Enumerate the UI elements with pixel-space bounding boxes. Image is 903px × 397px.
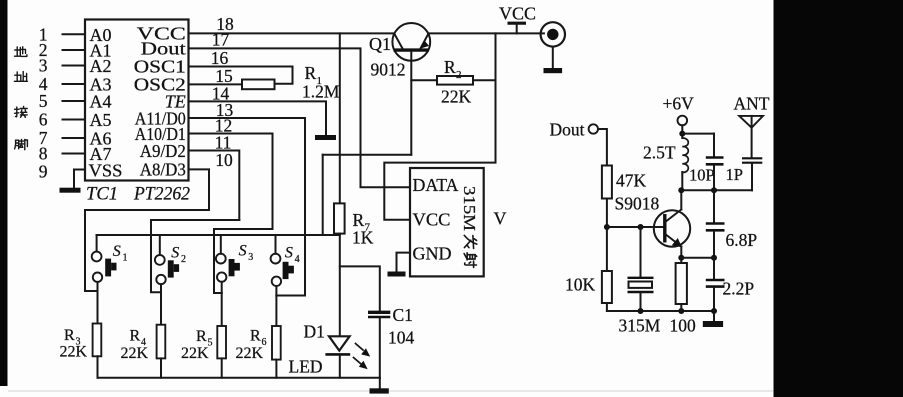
chinese char DI (earth) (15, 47, 27, 57)
chinese char JIAO (pin/foot) (15, 139, 28, 149)
svg-text:100: 100 (670, 316, 697, 336)
svg-text:10P: 10P (689, 166, 715, 185)
svg-text:22K: 22K (236, 345, 264, 362)
svg-text:3: 3 (39, 56, 48, 76)
capacitor C3 1P (742, 158, 762, 190)
svg-text:+6V: +6V (663, 94, 695, 114)
svg-text:2: 2 (181, 254, 186, 265)
svg-text:2: 2 (456, 69, 462, 81)
svg-text:R: R (250, 328, 261, 345)
RF ground bar (703, 321, 723, 327)
capacitor C2 10P (706, 134, 724, 191)
crystal Y1 315M (628, 227, 654, 311)
wire rail to R7 bottom (323, 234, 340, 236)
transistor Q1 9012 (392, 23, 430, 155)
junction 10P bottom (711, 187, 717, 193)
svg-text:9: 9 (39, 162, 48, 182)
wire +6V node to 10P (682, 133, 714, 135)
battery terminal J1 (541, 22, 565, 68)
svg-text:A8/D3: A8/D3 (140, 160, 186, 180)
svg-text:TC1: TC1 (86, 184, 118, 204)
svg-text:ANT: ANT (734, 94, 770, 114)
junction rail right end (711, 308, 717, 314)
pin 6 stub (63, 119, 86, 121)
svg-text:9012: 9012 (371, 60, 406, 80)
junction collector node (678, 187, 684, 193)
chinese char ZHI (address) (14, 72, 27, 82)
LED light arrow 2 (354, 358, 368, 370)
TE ground bar (315, 135, 336, 140)
resistor R6 (272, 296, 281, 378)
svg-text:22K: 22K (60, 344, 88, 361)
wire collector node to 1P (682, 189, 752, 191)
switch S4 (271, 235, 294, 296)
wire +6V to coil (681, 125, 683, 138)
chinese char SHE (shoot) (464, 253, 477, 268)
svg-text:R: R (64, 327, 75, 344)
+6V terminal circle (678, 116, 688, 126)
svg-text:V: V (494, 208, 507, 228)
svg-text:C1: C1 (393, 305, 413, 325)
module ground bar (388, 272, 406, 277)
pin 2 stub (63, 49, 86, 51)
resistor R5 (217, 293, 226, 378)
IC U1 TC1 PT2262 body (85, 20, 189, 181)
bottom rail ground stem (379, 378, 381, 389)
junction emitter node (678, 255, 684, 261)
resistor R7 body (334, 203, 345, 233)
wire R2 to VCC vertical (473, 79, 496, 81)
svg-text:A5: A5 (90, 110, 112, 130)
junction crystal tap (638, 224, 644, 230)
wire common switch-top rail (97, 234, 323, 236)
wire pin15 OSC2 to R1 (189, 83, 243, 85)
svg-text:6.8P: 6.8P (726, 230, 758, 250)
wire pin11 A9/D2 down (189, 151, 240, 221)
svg-text:1.2M: 1.2M (302, 82, 340, 102)
svg-text:3: 3 (248, 252, 253, 263)
inductor L1 2.5T coil (682, 138, 688, 172)
wire Q1 base to switch rail (323, 154, 412, 156)
switch S2 (155, 235, 179, 292)
battery terminal ground bar (544, 68, 563, 73)
svg-text:47K: 47K (616, 171, 647, 191)
svg-text:GND: GND (413, 243, 452, 263)
svg-text:16: 16 (211, 48, 229, 68)
wire rail pin11 to S2 bottom (151, 220, 239, 292)
wire VCC node vertical to R7 (339, 33, 341, 203)
svg-text:S9018: S9018 (615, 194, 660, 214)
wire Q2 emitter to cap column (681, 257, 714, 259)
svg-text:315M: 315M (460, 186, 479, 231)
svg-text:A9/D2: A9/D2 (140, 141, 186, 161)
svg-text:6: 6 (39, 110, 48, 130)
wire bottom common rail (98, 377, 380, 379)
resistor R9 10K (602, 227, 612, 311)
bottom rail ground bar (370, 388, 389, 393)
svg-text:PT2262: PT2262 (133, 184, 190, 204)
pin 7 stub (63, 137, 86, 139)
wire Q1 base to R2 (411, 79, 437, 81)
wire rail pin12 to S3 bottom (214, 229, 273, 293)
transistor Q2 S9018 (654, 210, 690, 248)
wire coil to collector node (681, 172, 683, 190)
svg-text:R: R (130, 328, 141, 345)
capacitor C1 (340, 266, 391, 377)
svg-text:Dout: Dout (550, 120, 585, 140)
junction base node left (604, 224, 610, 230)
resistor R8 47K body (602, 166, 612, 199)
svg-text:315M: 315M (619, 316, 661, 336)
wire rail pin10 to S1 bottom (85, 210, 209, 291)
Dout terminal circle (589, 124, 598, 133)
switch S3 (216, 235, 240, 293)
svg-text:R: R (444, 57, 456, 77)
switch S1 (92, 235, 117, 291)
wire R7 to LED anode (339, 234, 341, 337)
svg-text:4: 4 (295, 254, 300, 265)
resistor R3 (93, 291, 102, 378)
svg-text:A4: A4 (90, 92, 112, 112)
junction emitter cap column (711, 255, 717, 261)
RF module M1 315M transmitter box (410, 168, 484, 276)
chinese char JIE (connect) (15, 107, 28, 118)
VSS ground bar (60, 188, 81, 193)
svg-text:VSS: VSS (89, 160, 123, 180)
RF ground stem (713, 311, 715, 321)
chinese char FA (emit) (464, 235, 477, 248)
wire Q2 emitter down (680, 247, 682, 258)
pin 1 stub (63, 33, 86, 35)
pin 5 stub (63, 100, 86, 102)
svg-text:2.2P: 2.2P (723, 279, 755, 299)
svg-text:DATA: DATA (413, 175, 459, 195)
LED D1 (325, 336, 350, 377)
svg-text:17: 17 (212, 30, 230, 50)
wire 47K to base node (606, 199, 608, 228)
resistor R2 body (437, 76, 473, 85)
wire Q2 collector up (680, 190, 682, 209)
wire base node to Q2 base (607, 226, 664, 228)
wire Q1 emitter to VCC terminal (428, 32, 544, 34)
svg-text:R: R (196, 328, 207, 345)
pin 3 stub (63, 65, 86, 67)
junction +6V node (679, 131, 685, 137)
LED light arrow 1 (356, 344, 371, 357)
junction crystal to rail (638, 308, 644, 314)
capacitor C5 2.2P (706, 258, 725, 311)
wire pin10 A8/D3 down (189, 169, 210, 210)
svg-text:1P: 1P (726, 165, 743, 184)
svg-text:22K: 22K (121, 345, 149, 362)
junction 100ohm to rail (678, 308, 684, 314)
svg-text:5: 5 (39, 91, 48, 111)
svg-text:Q1: Q1 (369, 34, 391, 54)
wire RF emitter rail (607, 310, 714, 312)
antenna symbol (739, 116, 763, 157)
wire VCC branch down to module VCC (384, 33, 495, 219)
svg-text:Dout: Dout (141, 39, 186, 59)
resistor R4 (157, 292, 166, 377)
svg-text:104: 104 (388, 328, 415, 348)
svg-text:LED: LED (289, 357, 323, 377)
wire pin18 VCC to Q1 collector (189, 32, 395, 34)
wire Dout to 47K (598, 129, 607, 166)
VCC tap symbol (508, 23, 527, 33)
svg-text:10: 10 (215, 150, 233, 170)
wire rail to Q1 base riser (322, 155, 324, 235)
module rotated name 315M (460, 186, 479, 267)
pin 4 stub (63, 83, 86, 85)
svg-text:22K: 22K (181, 345, 209, 362)
svg-text:2.5T: 2.5T (643, 143, 676, 163)
module GND wire (397, 253, 411, 272)
wire pin13 A11/D0 to S4 (189, 118, 306, 296)
svg-text:10K: 10K (565, 275, 596, 295)
svg-text:R: R (305, 63, 317, 83)
svg-text:VCC: VCC (499, 4, 536, 24)
wire pin17 Dout to module DATA (189, 48, 411, 187)
VSS ground wire (74, 170, 85, 188)
pin 8 stub (63, 153, 86, 155)
svg-text:S: S (239, 242, 247, 259)
resistor R10 100 (676, 258, 687, 311)
svg-text:S: S (171, 244, 179, 261)
resistor R1 body (242, 80, 275, 90)
svg-text:1K: 1K (352, 228, 374, 248)
wire pin16 OSC1 to R1 (189, 67, 293, 84)
svg-text:1: 1 (123, 253, 128, 264)
svg-text:VCC: VCC (413, 209, 451, 229)
capacitor C4 6.8P (706, 190, 725, 257)
svg-text:D1: D1 (304, 322, 325, 342)
svg-text:S: S (285, 244, 293, 261)
svg-text:A2: A2 (90, 56, 112, 76)
wire pin14 TE to ground (189, 101, 327, 135)
wire pin12 A10/D1 down (189, 134, 273, 230)
svg-text:22K: 22K (441, 87, 472, 107)
svg-text:S: S (113, 243, 121, 260)
